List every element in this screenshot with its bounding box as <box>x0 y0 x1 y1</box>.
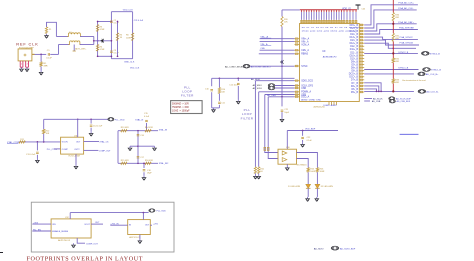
wire gnd stub left <box>130 145 138 147</box>
wire PLL rail <box>212 77 295 79</box>
svg-text:374R: 374R <box>100 49 105 51</box>
wire right vertical <box>132 12 134 59</box>
edge mark <box>0 252 3 254</box>
svg-text:C14 0.1uF: C14 0.1uF <box>93 125 103 127</box>
ground below D1 <box>307 197 309 199</box>
wire right bundle G2 <box>364 43 416 48</box>
svg-text:49R: 49R <box>44 66 48 68</box>
svg-text:D7+_B: D7+_B <box>351 80 359 82</box>
capacitor C11 <box>218 94 220 101</box>
wire LED D1 cathode <box>307 188 309 197</box>
svg-text:D6-_B: D6-_B <box>351 89 358 91</box>
wire xtal branch lower <box>118 162 158 164</box>
svg-text:VIN+_A: VIN+_A <box>301 38 309 41</box>
svg-text:AD_SDIO_BUF: AD_SDIO_BUF <box>340 248 356 251</box>
wire to LEDs <box>307 172 309 184</box>
wire U13 gnd <box>139 235 141 240</box>
wire VDD_PLL rail <box>44 118 109 120</box>
svg-text:SYNC1_B: SYNC1_B <box>431 70 442 72</box>
resistor R3 <box>96 25 98 32</box>
port AD_CLK_B <box>418 90 426 94</box>
wire U11 out2 <box>84 149 99 151</box>
svg-text:PGA_AD_CLK-: PGA_AD_CLK- <box>398 7 413 10</box>
svg-text:0.1uF: 0.1uF <box>114 23 120 25</box>
svg-text:D11-_B: D11-_B <box>350 52 358 54</box>
svg-text:1: 1 <box>21 64 22 66</box>
capacitor C1 <box>47 53 49 56</box>
svg-text:49R: 49R <box>395 17 399 19</box>
svg-text:D10-_B: D10-_B <box>350 58 358 60</box>
svg-text:374R: 374R <box>100 29 105 31</box>
capacitor C2 <box>110 20 113 22</box>
capacitor C3 <box>110 50 113 52</box>
wire AD_SCLK out <box>364 98 372 100</box>
svg-text:AD_CLK_B-: AD_CLK_B- <box>426 91 438 94</box>
ground below R2 <box>46 34 48 36</box>
regulator group box <box>31 202 174 252</box>
wire buffer out 2 <box>297 159 309 168</box>
svg-text:AD9643-250: AD9643-250 <box>314 105 326 108</box>
svg-text:OUT: OUT <box>95 222 100 224</box>
svg-text:C31 0.1uF: C31 0.1uF <box>134 20 144 22</box>
wire U12 vout <box>91 223 103 225</box>
svg-text:D13+_B: D13+_B <box>350 37 359 39</box>
ground xtal left <box>129 146 131 148</box>
svg-text:ADP121-2.5: ADP121-2.5 <box>129 236 141 239</box>
wire C1 to balun <box>50 53 58 55</box>
series resistor marks <box>264 147 266 150</box>
oscillator X1 <box>18 49 32 61</box>
svg-text:D11+_B: D11+_B <box>350 49 359 51</box>
resistor R16 <box>145 162 151 164</box>
capacitor C18 <box>143 163 145 168</box>
ground below R22 <box>258 174 260 175</box>
svg-text:10pF: 10pF <box>284 112 289 114</box>
wire LED D2 cathode <box>316 188 318 197</box>
svg-text:4: 4 <box>27 64 28 66</box>
ground below D2 <box>316 197 318 199</box>
wire U11 top pin <box>77 119 79 137</box>
svg-text:D15-_B: D15-_B <box>350 28 358 30</box>
wire SPI rows <box>255 80 294 82</box>
svg-text:D9+_B: D9+_B <box>351 61 359 63</box>
ground below U12 <box>73 243 75 245</box>
svg-text:1GHZ -> 1000pF: 1GHZ -> 1000pF <box>172 110 190 113</box>
wire right bundle C <box>364 24 417 31</box>
port AD_CSB out <box>389 100 395 103</box>
wire U12 en <box>32 230 51 232</box>
wire OEB to buffer <box>268 97 278 159</box>
svg-text:GND_CLK: GND_CLK <box>124 62 135 64</box>
resistor R30 <box>392 13 394 21</box>
U9 left pins <box>295 38 300 40</box>
svg-text:VDD_IO: VDD_IO <box>342 8 351 11</box>
wire input node <box>94 40 112 42</box>
svg-text:R14 49R: R14 49R <box>145 127 153 129</box>
svg-text:AD9643BCPZ: AD9643BCPZ <box>323 56 337 59</box>
svg-text:SDIO_DCS: SDIO_DCS <box>301 81 313 83</box>
wire input node <box>25 141 60 143</box>
resistor R13 <box>121 130 127 132</box>
capacitor C22 <box>302 131 304 136</box>
port AD_SDIO2 <box>331 246 339 250</box>
wire filter bottom <box>212 107 220 109</box>
wire AD_CLK row <box>364 73 414 75</box>
svg-text:D7-_B: D7-_B <box>351 83 358 85</box>
svg-text:+2V5_IN: +2V5_IN <box>110 223 119 225</box>
resistor R21 <box>254 167 256 174</box>
svg-text:FILTER: FILTER <box>181 94 194 98</box>
port AD_CONV_SELECT <box>243 64 250 68</box>
wire rail A <box>97 22 99 57</box>
op-amp U11 vcxo <box>61 137 84 154</box>
net arrow input <box>100 39 103 42</box>
wire CML <box>260 49 295 51</box>
wire right bundle D <box>364 30 418 35</box>
svg-text:XTAL_IN: XTAL_IN <box>159 129 168 132</box>
svg-text:SYNC2_B: SYNC2_B <box>430 54 441 56</box>
svg-text:AGND DGND DNC: AGND DGND DNC <box>301 99 321 102</box>
svg-text:AD_SDIO: AD_SDIO <box>253 84 263 87</box>
svg-text:0.1uF: 0.1uF <box>114 53 120 55</box>
resistor R6 <box>131 33 133 41</box>
wire ADCP_B- row <box>364 69 418 71</box>
port AD_SDIO <box>268 84 275 88</box>
svg-text:18pF: 18pF <box>147 173 152 175</box>
svg-text:PGA_STROBE: PGA_STROBE <box>399 26 414 29</box>
wire staircase 1 <box>364 83 381 92</box>
svg-text:0.1uF: 0.1uF <box>307 140 313 142</box>
wire OEB row <box>268 96 294 98</box>
svg-text:FILTER: FILTER <box>241 116 254 120</box>
capacitor C10 <box>211 78 213 86</box>
svg-text:D1 LED-GRN: D1 LED-GRN <box>288 186 301 188</box>
buffer U10 <box>278 149 297 164</box>
svg-text:AD_CSB_BUF: AD_CSB_BUF <box>397 100 411 103</box>
svg-text:0.1uF: 0.1uF <box>46 58 52 60</box>
resistor R25 <box>307 168 309 173</box>
svg-text:ENABLE_SENSE: ENABLE_SENSE <box>52 230 68 233</box>
svg-text:D5+_B: D5+_B <box>351 92 359 94</box>
svg-text:VCON: VCON <box>62 142 68 144</box>
wire U13 vout <box>150 224 152 226</box>
svg-text:VDD_BUF: VDD_BUF <box>305 128 316 130</box>
wire AD_CONV_SELECT <box>250 65 295 67</box>
wire U11 out1 <box>84 141 99 143</box>
wire AD_CSB out <box>364 100 370 102</box>
wire pll ctrl <box>54 148 61 150</box>
wire VIN+ <box>260 38 295 40</box>
svg-text:D2 LED-GRN: D2 LED-GRN <box>321 186 334 188</box>
svg-text:OUT2: OUT2 <box>74 149 80 151</box>
transformer T1 primary <box>56 36 68 38</box>
svg-text:CSB: CSB <box>301 88 306 90</box>
wire gnd stub right <box>138 145 155 147</box>
svg-text:DGND AGND: DGND AGND <box>324 104 338 107</box>
svg-text:VDD_CLK: VDD_CLK <box>130 68 140 70</box>
svg-text:49R: 49R <box>395 61 399 63</box>
svg-text:+2V5: +2V5 <box>153 223 159 225</box>
ground below oscillator right <box>26 67 28 69</box>
wire DCO cap branch <box>281 97 283 107</box>
svg-text:D8+_B: D8+_B <box>351 68 359 70</box>
svg-text:PGA_SYNC2: PGA_SYNC2 <box>400 36 414 39</box>
wire U12 top pin <box>69 213 71 219</box>
wire right bundle F <box>364 40 419 45</box>
wire ADCP_B+ row <box>364 52 418 54</box>
svg-text:D12-_B: D12-_B <box>350 46 358 48</box>
svg-text:R16 49R: R16 49R <box>145 160 153 162</box>
transformer T1 secondary <box>59 44 70 46</box>
resistor R2 <box>45 27 47 34</box>
ground below C12 <box>237 86 239 100</box>
svg-text:SYNC2_B: SYNC2_B <box>398 52 409 54</box>
wire xtal left vertical <box>117 131 119 164</box>
svg-text:AD_CLK_B+: AD_CLK_B+ <box>426 73 439 76</box>
wire buffer out 1 <box>297 153 318 168</box>
resistor R12 <box>43 119 45 129</box>
LED D1 <box>306 184 311 188</box>
capacitor C14 <box>90 119 92 123</box>
resistor R14 <box>145 130 151 132</box>
wire input <box>19 141 26 143</box>
ground below C14 <box>90 128 92 132</box>
svg-text:PLL_VDD: PLL_VDD <box>157 211 167 213</box>
svg-text:XTAL_N: XTAL_N <box>135 118 144 121</box>
svg-text:SYNC: SYNC <box>301 66 308 68</box>
port AD_SCLK out <box>389 97 395 100</box>
svg-text:D15+_B: D15+_B <box>350 25 359 27</box>
LED D2 <box>315 184 320 188</box>
svg-text:100R: 100R <box>320 171 325 173</box>
wire VDD rail buffer <box>287 130 338 132</box>
svg-text:R15 49R: R15 49R <box>121 160 129 162</box>
wire PDWN to buffer <box>265 95 278 153</box>
port PLL_VDD box <box>149 209 155 212</box>
svg-text:SYNC1_B: SYNC1_B <box>398 68 409 70</box>
power bus red VDD <box>301 10 303 12</box>
svg-text:DCO_A: DCO_A <box>301 96 309 99</box>
wire AD_CLK_B row <box>364 90 414 92</box>
port AD_CLK2 <box>418 72 425 76</box>
svg-text:VCXO-125M: VCXO-125M <box>68 156 80 158</box>
resistor R20 pullup <box>281 17 283 27</box>
power bar VDD_IO <box>356 4 361 6</box>
svg-text:COMP_OUT: COMP_OUT <box>99 150 112 152</box>
red clock chain <box>392 0 394 13</box>
wire PDWN row <box>265 94 295 96</box>
resistor R10 <box>218 78 220 87</box>
svg-text:D10+_B: D10+_B <box>350 55 359 57</box>
svg-text:AD_SCLK: AD_SCLK <box>373 97 383 100</box>
wire staircase 3 <box>364 89 376 92</box>
wire CSB pulldown vertical <box>258 92 260 167</box>
capacitor C17 <box>137 156 140 158</box>
capacitor C13 <box>36 142 38 151</box>
wire VIN- <box>260 41 295 43</box>
ground below C18 <box>143 172 145 176</box>
transformer T1 center tap <box>73 45 75 52</box>
svg-text:D14-_B: D14-_B <box>350 34 358 36</box>
svg-text:C12 10nF: C12 10nF <box>229 85 239 87</box>
svg-text:PGA_AD_CLK+: PGA_AD_CLK+ <box>398 2 414 5</box>
ground below R1 <box>40 66 42 70</box>
svg-text:AD_SCLK: AD_SCLK <box>253 87 263 90</box>
svg-text:RBIAS: RBIAS <box>301 53 308 56</box>
resistor R33 <box>392 79 394 84</box>
wire top rail VDD <box>111 11 132 13</box>
wire vdd rail box <box>70 212 148 214</box>
ground below U13 <box>139 239 141 241</box>
wire right bundle E <box>364 37 418 39</box>
ground below R21 <box>254 174 256 175</box>
regulator U13 <box>128 220 151 235</box>
svg-text:C13 0.1uF: C13 0.1uF <box>26 154 36 156</box>
wire SDIO pulldown vertical <box>254 81 256 167</box>
U9 right pins <box>359 24 364 26</box>
svg-text:D13-_B: D13-_B <box>350 40 358 42</box>
wire bottom rail GND_CLK <box>111 58 132 60</box>
resistor R11 <box>19 141 25 143</box>
svg-text:D6+_B: D6+_B <box>351 86 359 88</box>
capacitor C12 <box>237 78 239 81</box>
svg-text:100R: 100R <box>310 171 315 173</box>
wire bottom stub <box>98 55 112 57</box>
port AD_SCLK <box>268 86 275 90</box>
wire U13 vin <box>110 224 127 226</box>
resistor R15 <box>121 162 127 164</box>
U9 bottom pins <box>328 102 330 106</box>
net arrow on pullup <box>280 61 283 64</box>
capacitor C16 <box>137 134 140 136</box>
svg-text:COMP_OUT: COMP_OUT <box>86 243 99 245</box>
resistor R31 <box>392 33 394 41</box>
wire balun output link <box>93 37 95 45</box>
wire buffer top pin <box>286 131 288 150</box>
wire oscillator output <box>32 53 46 55</box>
regulator U12 <box>51 219 91 238</box>
svg-text:REF CLK: REF CLK <box>16 41 38 46</box>
resistor R5 <box>117 22 119 57</box>
svg-text:AD_CSB: AD_CSB <box>372 100 381 103</box>
svg-text:PGA_AD_DAT+: PGA_AD_DAT+ <box>398 21 414 24</box>
resistor R32 <box>392 58 394 63</box>
ground below C22 <box>302 140 304 143</box>
svg-text:49R: 49R <box>395 82 399 84</box>
svg-text:VIN: VIN <box>52 224 56 226</box>
wire RBIAS <box>259 53 295 55</box>
resistor R1 <box>40 54 42 61</box>
ground below U11 <box>75 165 77 167</box>
svg-text:100R: 100R <box>126 37 131 39</box>
wire balun top termination <box>47 22 57 36</box>
svg-text:R13 49R: R13 49R <box>121 127 129 129</box>
capacitor C21 <box>281 109 284 111</box>
wire U12 vin <box>32 223 51 225</box>
svg-text:DCO+_B: DCO+_B <box>349 74 359 76</box>
wire U13 top pin <box>142 213 144 220</box>
note box <box>171 101 203 114</box>
ground loop filter <box>213 108 215 110</box>
svg-text:NC7WZ16: NC7WZ16 <box>297 164 308 166</box>
svg-text:D9-_B: D9-_B <box>351 64 358 66</box>
svg-text:CML_A: CML_A <box>301 49 309 52</box>
ground xtal right <box>154 146 156 148</box>
resistor R22 <box>258 167 260 174</box>
wire right bundle A <box>364 5 418 25</box>
svg-text:VOUT: VOUT <box>84 224 90 226</box>
wire right bundle B <box>364 10 417 28</box>
ground below C13 <box>36 155 38 159</box>
ground below C21 <box>281 112 283 117</box>
wire CSB row <box>259 91 295 93</box>
blue line mark <box>400 133 419 135</box>
svg-text:DCO-_B: DCO-_B <box>349 77 358 79</box>
svg-text:ADT1-1WT+: ADT1-1WT+ <box>75 47 87 50</box>
wire bus to pullup <box>282 9 300 11</box>
svg-text:XTAL_O1: XTAL_O1 <box>100 140 110 143</box>
svg-text:PGA_SYNCB: PGA_SYNCB <box>400 42 414 45</box>
ground below oscillator left <box>21 67 23 69</box>
svg-text:0.1uF: 0.1uF <box>144 116 150 118</box>
ground below buffer <box>286 164 288 166</box>
svg-text:VCM_A: VCM_A <box>301 43 309 46</box>
resistor R4 <box>96 45 98 52</box>
wire left vertical VDD leg <box>110 12 112 59</box>
port PLL_VDD <box>108 118 114 121</box>
svg-text:ADP1706-3.3: ADP1706-3.3 <box>58 239 71 242</box>
svg-text:D8-_B: D8-_B <box>351 71 358 73</box>
wire cap divider <box>137 131 139 164</box>
wire staircase 2 <box>364 86 379 92</box>
port ADCP_B+ <box>422 52 430 56</box>
resistor R26 <box>316 168 318 173</box>
svg-text:AD_SCLK_BUF: AD_SCLK_BUF <box>396 97 412 100</box>
wire xtal branch upper <box>118 130 158 132</box>
U9 top pins <box>301 20 303 24</box>
svg-text:AD_SDIO: AD_SDIO <box>314 248 324 251</box>
wire U11 bottom pin <box>75 154 77 164</box>
svg-text:FOOTPRINTS OVERLAP IN LAYOUT: FOOTPRINTS OVERLAP IN LAYOUT <box>27 257 144 261</box>
svg-text:PLL_VDD: PLL_VDD <box>115 119 125 121</box>
wire top stub <box>98 21 112 23</box>
svg-text:Use termination at the end: Use termination at the end <box>402 79 425 82</box>
U9 top pin designators <box>301 20 303 23</box>
wire U12 bottom <box>77 238 85 243</box>
svg-text:D14+_B: D14+_B <box>350 31 359 33</box>
op-amp U9 ADC body <box>300 24 360 102</box>
oscillator X1 power pins <box>19 61 21 67</box>
wire pullup vertical <box>281 10 283 17</box>
svg-text:XTAL_IN2: XTAL_IN2 <box>159 162 169 165</box>
svg-text:500MHZ -> 10R: 500MHZ -> 10R <box>172 103 189 106</box>
svg-text:VIN-_A: VIN-_A <box>301 41 309 44</box>
svg-text:COMP: COMP <box>62 149 69 151</box>
node osc out junction <box>40 54 42 56</box>
svg-text:PDWN_A: PDWN_A <box>301 91 311 94</box>
port ADCP_B- <box>423 68 431 72</box>
svg-text:D12+_B: D12+_B <box>350 43 359 45</box>
svg-text:750MHZ -> 15R: 750MHZ -> 15R <box>172 106 189 109</box>
svg-text:49R: 49R <box>395 38 399 40</box>
svg-text:VDD_CLK: VDD_CLK <box>123 10 134 12</box>
